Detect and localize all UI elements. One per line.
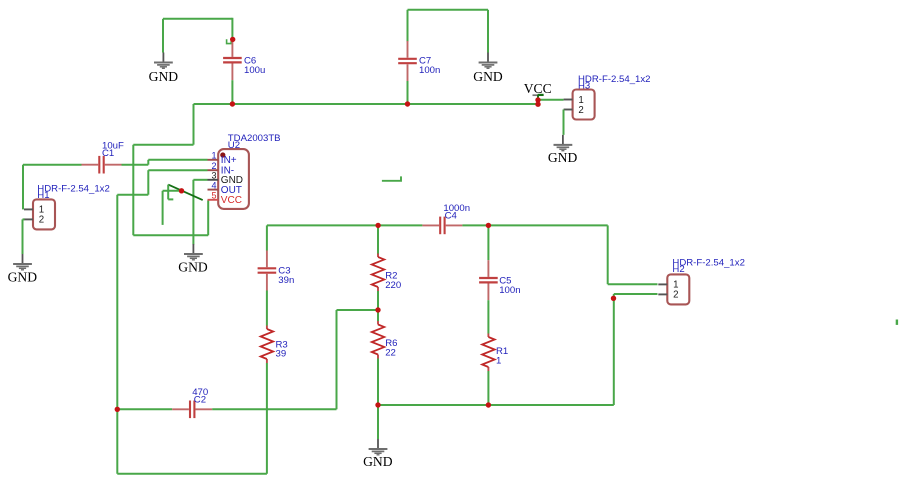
svg-text:100u: 100u [244, 65, 265, 76]
svg-text:5: 5 [211, 191, 216, 201]
wire C7 bottom to VCC bus [407, 81, 409, 104]
svg-text:C1: C1 [102, 148, 114, 159]
svg-text:1: 1 [496, 356, 501, 367]
resistor R2 220 [372, 254, 402, 292]
wire to H2 pin 2 [614, 293, 658, 295]
junction VCC symbol [535, 97, 540, 102]
junction C7 on VCC bus [405, 101, 410, 106]
svg-text:C4: C4 [445, 210, 458, 221]
junction VCC bus end [535, 102, 540, 107]
wire R3 bottom long vertical [266, 363, 268, 474]
wire stray bracket [382, 176, 401, 180]
wire to GND2 vertical [487, 10, 489, 53]
svg-text:GND: GND [178, 260, 208, 275]
ground GND1 top-left [149, 53, 179, 85]
junction R6 bottom rail [375, 402, 380, 407]
ground GND6 bottom [363, 439, 393, 469]
wire C1 right horizontal [122, 164, 149, 166]
svg-text:2: 2 [211, 161, 216, 171]
svg-text:C2: C2 [194, 394, 206, 405]
ground GND3 below U2 [178, 244, 208, 275]
capacitor C2 470 [172, 387, 212, 418]
capacitor C4 1000n [422, 203, 470, 234]
wire pin2 branch down [147, 170, 149, 195]
wire to R2 R6 junction [337, 309, 379, 311]
wire H1 pin 2 down to GND [22, 219, 24, 254]
junction on diagonal [179, 188, 184, 193]
wire R6 top [377, 310, 379, 321]
resistor R6 22 [372, 321, 398, 359]
wire VCC path bottom horizontal [133, 234, 208, 236]
svg-text:GND: GND [363, 454, 393, 469]
wire VCC to H3 pin 1 [538, 99, 564, 101]
junction R2 on bus2 [375, 223, 380, 228]
wire long left vertical [116, 195, 118, 410]
wire squiggle horizontal [163, 190, 182, 192]
wire squiggle long vertical [162, 191, 164, 225]
capacitor C7 100n [398, 41, 440, 81]
svg-text:2: 2 [673, 290, 678, 301]
svg-text:22: 22 [385, 347, 396, 358]
ground GND4 below H1 [8, 254, 38, 284]
wire small hook near C6 junction [227, 39, 232, 43]
svg-text:2: 2 [39, 215, 44, 226]
wire bus2 left segment [267, 224, 423, 226]
capacitor C6 100u [223, 40, 265, 80]
svg-text:H3: H3 [578, 80, 590, 91]
wire jog up [147, 160, 149, 165]
wire C2 right [212, 408, 336, 410]
wire VCC path up to U2 pin 5 [207, 200, 209, 235]
U2 pin 3 GND [208, 171, 244, 187]
wire squiggle vertical [167, 185, 169, 200]
wire H2 branch vertical [613, 294, 615, 405]
U2 pin 4 OUT [208, 180, 242, 196]
op-amp U2 TDA2003TB [218, 133, 280, 209]
svg-text:2: 2 [578, 105, 583, 116]
junction R2 R6 node [375, 307, 380, 312]
svg-text:220: 220 [385, 280, 401, 291]
svg-text:100n: 100n [419, 65, 440, 76]
wire H3 pin 2 to GND [563, 110, 565, 135]
wire H1 pin 2 stub left [23, 218, 25, 220]
wire bottom loop left vertical [116, 409, 118, 474]
junction R1 bottom rail [486, 402, 491, 407]
wire C6 bottom to VCC bus [231, 80, 233, 104]
wire C5 top [487, 225, 489, 260]
wire down to H1 pin 1 [22, 165, 24, 210]
wire C2 up vertical [336, 310, 338, 409]
wire VCC path horizontal to left [133, 144, 193, 146]
wire bottom rail horizontal [378, 404, 614, 406]
wire bus2 right segment [462, 224, 607, 226]
junction C6 on VCC bus [230, 101, 235, 106]
wire stray tick far right [896, 320, 898, 325]
wire to U2 pin 2 [148, 169, 207, 171]
connector H3 HDR-F-2.54_1x2 [564, 74, 651, 120]
svg-text:GND: GND [548, 150, 578, 165]
junction H2 pin2 node [611, 296, 616, 301]
wire bottom rail to GND [377, 405, 379, 439]
wire top-left horizontal [163, 18, 232, 20]
wire VCC bus horizontal [194, 103, 539, 105]
junction C4 right C5 top [486, 223, 491, 228]
svg-text:100n: 100n [499, 285, 520, 296]
wire squiggle foot [168, 198, 173, 200]
wire C3 top [266, 225, 268, 250]
wire pin2 branch horizontal [117, 194, 148, 196]
wire U2 pin 3 down to GND [192, 180, 194, 245]
ground GND5 below H3 [548, 135, 578, 165]
svg-text:GND: GND [149, 69, 179, 84]
resistor R1 1 [482, 334, 508, 372]
wire C7 top horizontal [408, 9, 489, 11]
wire C5 to R1 [487, 300, 489, 333]
svg-text:1: 1 [211, 151, 216, 161]
wire C2 left [117, 408, 172, 410]
power flag VCC [524, 81, 552, 104]
wire R2 top [377, 225, 379, 254]
svg-text:GND: GND [473, 69, 503, 84]
wire C7 top vertical [407, 10, 409, 42]
capacitor C1 10uF [82, 141, 125, 174]
wire U2 pin 3 horizontal [193, 179, 207, 181]
wire R6 bottom [377, 359, 379, 406]
svg-text:39: 39 [276, 349, 287, 360]
wire to H2 pin 1 [608, 283, 658, 285]
ground GND2 near C7 [473, 53, 503, 85]
U2 internal junction dot [220, 152, 225, 157]
wire VCC bus left drop [193, 104, 195, 145]
wire diagonal to U2 pin 5 [168, 185, 203, 201]
U2 pin 2 IN- [208, 161, 235, 177]
junction at C6 top [230, 37, 235, 42]
svg-text:VCC: VCC [524, 81, 552, 96]
wire C3 to R3 [266, 291, 268, 326]
wire VCC path vertical left [132, 145, 134, 236]
wire C1 left horizontal [23, 164, 82, 166]
resistor R3 39 [261, 326, 288, 364]
svg-text:3: 3 [211, 171, 216, 181]
wire to U2 pin 1 [148, 159, 207, 161]
capacitor C5 100n [479, 260, 520, 300]
wire top-left vertical to GND [162, 19, 164, 53]
wire bottom loop horizontal [117, 473, 267, 475]
wire bus2 drop to H2 pin 1 [607, 225, 609, 284]
U2 pin 5 VCC [208, 191, 242, 207]
svg-text:GND: GND [8, 269, 38, 284]
connector H2 HDR-F-2.54_1x2 [658, 257, 745, 304]
connector H1 HDR-F-2.54_1x2 [24, 183, 110, 229]
svg-text:VCC: VCC [221, 195, 242, 206]
wire C6 top vertical [231, 18, 233, 40]
svg-text:IN+: IN+ [221, 155, 237, 166]
junction C2 left node [115, 407, 120, 412]
wire R2 bottom [377, 291, 379, 310]
svg-text:H1: H1 [37, 190, 49, 201]
U2 pin 1 IN+ [208, 151, 237, 167]
svg-text:H2: H2 [672, 264, 684, 275]
svg-text:39n: 39n [278, 275, 294, 286]
wire R1 bottom [487, 371, 489, 405]
capacitor C3 39n [258, 251, 295, 291]
svg-text:U2: U2 [228, 140, 240, 151]
svg-text:4: 4 [211, 180, 216, 190]
